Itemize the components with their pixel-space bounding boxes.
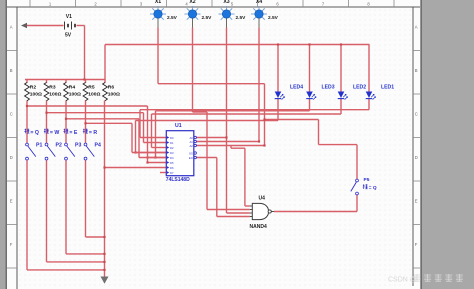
wire tap P3 to pin D4 xyxy=(66,118,139,120)
pin A1 xyxy=(194,140,196,142)
wire tap P2 to pin D1 xyxy=(47,112,144,114)
wire ground stub pin D6 xyxy=(160,172,166,174)
svg-text:D0: D0 xyxy=(170,136,174,140)
pin D0 xyxy=(167,136,169,139)
svg-text:R2: R2 xyxy=(30,84,37,90)
wire tap P1 to pin D6 xyxy=(27,105,148,107)
wire column R6 to pin D5 and ground xyxy=(104,101,106,277)
wire pin A0 to X3 xyxy=(197,137,227,139)
LED LED3 xyxy=(306,92,313,99)
svg-text:100Ω: 100Ω xyxy=(30,91,42,97)
wire switch P4 to ground bus xyxy=(85,160,87,237)
switch P4 xyxy=(86,146,94,157)
switch P5 xyxy=(351,182,357,191)
wire tap P4 to pin D3 xyxy=(86,122,133,124)
svg-text:U1: U1 xyxy=(175,123,182,129)
svg-text:X1: X1 xyxy=(155,0,161,5)
input arrow xyxy=(21,23,27,29)
svg-text:100Ω: 100Ω xyxy=(69,91,81,97)
wire LED1 cathode run to pin D0 xyxy=(368,99,370,110)
pin D7 xyxy=(167,171,169,174)
pin D2 xyxy=(167,146,169,149)
wire battery right xyxy=(77,25,85,27)
svg-text:P3: P3 xyxy=(75,142,81,148)
LED LED2 xyxy=(338,92,345,99)
svg-text:D2: D2 xyxy=(170,146,174,150)
node battery-bus junction xyxy=(83,78,85,80)
wire P5 branch xyxy=(265,119,319,121)
svg-text:D: D xyxy=(415,155,418,160)
resistor R3 xyxy=(46,80,48,84)
wire battery down to resistor bus xyxy=(84,26,86,81)
resistor R6 xyxy=(104,80,106,84)
svg-text:D3: D3 xyxy=(170,151,174,155)
wire column P4 resistor to switch xyxy=(85,101,87,144)
wire pin EO to NAND input 4 xyxy=(197,157,217,159)
svg-text:D6: D6 xyxy=(170,166,174,170)
pin A2 xyxy=(194,144,196,146)
svg-text:U4: U4 xyxy=(259,196,266,202)
svg-text:D7: D7 xyxy=(170,171,174,175)
svg-text:P4: P4 xyxy=(95,142,101,148)
svg-text:D5: D5 xyxy=(170,161,174,165)
resistor R5 xyxy=(85,80,87,84)
pin A0 xyxy=(194,136,196,138)
svg-text:A: A xyxy=(10,25,13,30)
svg-text:2.5V: 2.5V xyxy=(167,15,178,21)
LED LED4 xyxy=(275,92,282,99)
svg-text:= E: = E xyxy=(69,130,77,136)
pin D3 xyxy=(167,151,169,154)
svg-text:F: F xyxy=(10,242,13,247)
svg-text:R5: R5 xyxy=(88,84,95,90)
wire pin A2 to X1 xyxy=(197,145,265,147)
svg-text:B: B xyxy=(415,68,418,73)
resistor top bus xyxy=(25,79,106,81)
svg-text:= Q: = Q xyxy=(30,130,39,136)
svg-text:X2: X2 xyxy=(189,0,195,5)
svg-text:R4: R4 xyxy=(69,84,76,90)
svg-text:P2: P2 xyxy=(56,142,62,148)
LED LED1 xyxy=(366,92,373,99)
wire LED4 cathode run to pin D3 xyxy=(277,99,279,121)
svg-text:LED2: LED2 xyxy=(353,85,366,91)
svg-text:NAND4: NAND4 xyxy=(250,224,267,230)
surround panels xyxy=(0,0,6,289)
svg-text:LED4: LED4 xyxy=(290,85,303,91)
svg-text:CSDN @: CSDN @ xyxy=(388,277,417,284)
wire switch P2 to ground bus xyxy=(46,160,48,262)
wire lamp X4 net xyxy=(258,28,260,142)
switch P2 xyxy=(47,146,55,157)
wire NAND output to P5 xyxy=(274,211,357,213)
svg-text:= W: = W xyxy=(50,130,59,136)
wire LED2 cathode run to pin D2 xyxy=(340,99,342,115)
svg-text:EO: EO xyxy=(189,156,193,160)
svg-text:74LS148D: 74LS148D xyxy=(166,177,190,183)
wire LED4 anode xyxy=(277,45,279,92)
pin EO xyxy=(194,156,196,158)
svg-text:C: C xyxy=(10,112,13,117)
battery V1 xyxy=(65,22,72,30)
svg-text:A: A xyxy=(415,25,418,30)
node LED4 rail junction xyxy=(277,43,279,45)
wire LED3 cathode run to pin D4 xyxy=(309,99,311,111)
svg-text:A2: A2 xyxy=(190,144,194,148)
LED power rail xyxy=(105,44,370,46)
svg-text:V1: V1 xyxy=(66,14,72,20)
probe lamp X3 xyxy=(219,6,235,22)
svg-text:A1: A1 xyxy=(190,140,194,144)
probe lamp X4 xyxy=(251,6,267,22)
pin D1 xyxy=(167,141,169,144)
svg-text:100Ω: 100Ω xyxy=(49,91,61,97)
svg-text:D: D xyxy=(10,155,13,160)
svg-text:X4: X4 xyxy=(256,0,262,5)
wire lamp X1 net xyxy=(157,28,159,84)
svg-text:LED3: LED3 xyxy=(322,85,335,91)
svg-text:100Ω: 100Ω xyxy=(108,91,120,97)
switch P3 xyxy=(67,146,75,157)
svg-text:R3: R3 xyxy=(49,84,56,90)
svg-text:C: C xyxy=(415,112,418,117)
op-amp U1 74LS148D chip body xyxy=(166,131,194,176)
svg-text:P5: P5 xyxy=(364,177,370,183)
pin GS xyxy=(194,152,196,154)
node LED3 rail junction xyxy=(308,43,310,45)
gate U4 NAND4 xyxy=(252,203,268,219)
svg-text:R6: R6 xyxy=(108,84,115,90)
resistor R4 xyxy=(65,80,67,84)
wire LED3 anode xyxy=(309,45,311,92)
svg-text:5V: 5V xyxy=(65,33,72,39)
svg-text:P1: P1 xyxy=(36,142,42,148)
wire switch P3 to ground bus xyxy=(65,160,67,254)
svg-text:2.5V: 2.5V xyxy=(236,15,247,21)
wire battery left to arrow xyxy=(26,25,64,27)
svg-text:= R: = R xyxy=(89,130,97,136)
svg-text:LED1: LED1 xyxy=(381,85,394,91)
pin D4 xyxy=(167,156,169,159)
svg-text:B: B xyxy=(10,68,13,73)
wire switch P1 to ground bus xyxy=(26,160,28,270)
wire LED2 anode xyxy=(340,45,342,92)
node LED2 rail junction xyxy=(340,43,342,45)
wire bus up to LED rail xyxy=(104,45,106,81)
probe lamp X2 xyxy=(185,6,201,22)
wire LED1 anode xyxy=(368,45,370,92)
svg-text:2.5V: 2.5V xyxy=(268,15,279,21)
svg-text:A0: A0 xyxy=(190,136,194,140)
wire column P2 resistor to switch xyxy=(46,101,48,144)
wire A2 tap to NAND input 1 xyxy=(230,146,232,149)
probe lamp X1 xyxy=(150,6,166,22)
wire lamp X3 net to NAND input 3 xyxy=(226,28,228,214)
ground xyxy=(101,277,109,284)
svg-text:GS: GS xyxy=(189,151,193,155)
switch P1 xyxy=(28,146,36,157)
svg-text:D4: D4 xyxy=(170,156,174,160)
svg-text:D1: D1 xyxy=(170,141,174,145)
svg-text:= Q: = Q xyxy=(369,185,377,191)
wire pin A1 to X4 xyxy=(197,141,260,143)
svg-text:F: F xyxy=(415,242,418,247)
svg-text:X3: X3 xyxy=(223,0,229,5)
wire lamp X2 net to NAND input 2 xyxy=(192,28,194,113)
svg-text:E: E xyxy=(10,199,13,204)
svg-text:100Ω: 100Ω xyxy=(88,91,100,97)
wire column P1 resistor to switch xyxy=(26,101,28,144)
pin D6 xyxy=(167,166,169,169)
svg-text:2.5V: 2.5V xyxy=(202,15,213,21)
wire column P3 resistor to switch xyxy=(65,101,67,144)
resistor R2 xyxy=(26,80,28,84)
svg-text:E: E xyxy=(415,199,418,204)
pin D5 xyxy=(167,161,169,164)
